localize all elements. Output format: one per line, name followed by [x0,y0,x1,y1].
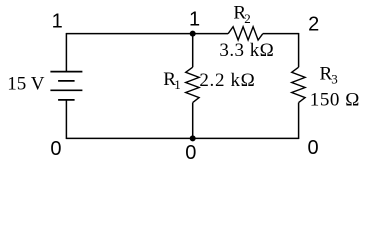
junction dot node 0 (bottom middle) [190,135,196,141]
wire top: R2 right lead to node 2 corner [263,33,299,35]
resistor R3 zigzag (vertical, right) [292,67,305,102]
svg-text:3.3 kΩ: 3.3 kΩ [219,40,274,61]
wire left vertical: node 1 down to battery + plate [65,33,67,71]
svg-text:15 V: 15 V [7,74,44,95]
resistor R1 zigzag (vertical, middle) [186,67,199,102]
svg-text:0: 0 [185,142,196,164]
wire middle vertical: R1 bottom down to node 0 dot [192,103,194,139]
svg-text:0: 0 [50,138,61,160]
battery V1 15 V (left) [50,72,82,100]
svg-text:150 Ω: 150 Ω [310,90,360,111]
svg-text:2.2 kΩ: 2.2 kΩ [199,70,255,91]
wire right vertical: node 2 corner down to R3 top [298,33,300,67]
svg-text:0: 0 [307,137,318,159]
wire right vertical: R3 bottom down to node 0 rail [298,103,300,139]
svg-text:2: 2 [244,11,251,26]
wire middle vertical: node 1 dot down to R1 top [192,34,194,68]
wire top: node1 corner to R2 left lead [66,33,228,35]
svg-text:1: 1 [189,8,200,30]
svg-text:3: 3 [331,72,338,87]
resistor R2 zigzag (horizontal, top) [228,27,263,40]
svg-text:1: 1 [52,11,63,33]
wire left vertical: battery - plate down to node 0 [65,100,67,139]
wire bottom: node 0 rail [66,137,298,139]
junction dot node 1 (top middle) [190,31,196,37]
svg-text:2: 2 [308,13,319,35]
svg-text:1: 1 [174,77,181,92]
